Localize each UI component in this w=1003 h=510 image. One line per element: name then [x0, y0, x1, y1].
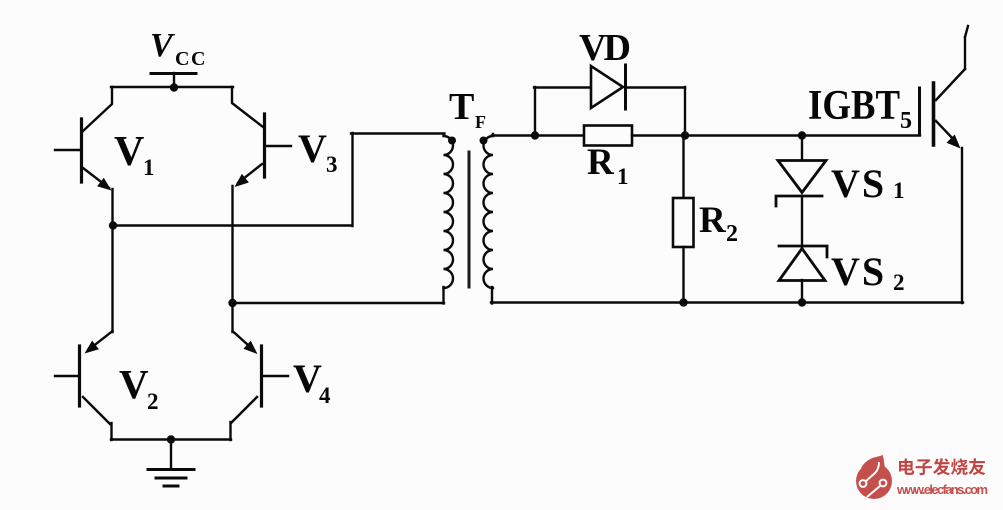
wire Vcc stem — [173, 73, 175, 87]
svg-text:1: 1 — [893, 178, 905, 203]
transformer core — [468, 152, 471, 287]
wire secondary bottom lead — [491, 287, 493, 304]
node Vcc junction dot — [170, 83, 178, 91]
node left mid junction — [109, 221, 117, 229]
node VS top junction — [798, 131, 806, 139]
label VS1 — [831, 161, 905, 206]
label Vcc — [150, 27, 207, 70]
node bottom bridge junction — [228, 299, 236, 307]
wire top rail — [111, 86, 233, 88]
wire bottom emitter rail — [111, 438, 231, 440]
svg-text:VD: VD — [579, 27, 631, 69]
label IGBT5 — [808, 83, 912, 134]
wire mid rail to transformer — [112, 224, 352, 226]
transistor V1 — [55, 87, 113, 226]
wire VD left vertical — [534, 87, 536, 136]
node ground junction dot — [167, 435, 175, 443]
svg-text:R: R — [587, 142, 615, 183]
svg-text:R: R — [699, 200, 727, 241]
svg-text:2: 2 — [147, 389, 159, 414]
watermark logo elecfans — [856, 455, 892, 500]
svg-text:VS: VS — [831, 161, 886, 206]
node R2 bottom junction — [679, 298, 687, 306]
wire VD branch top left — [534, 86, 591, 88]
label V3 — [298, 126, 338, 177]
label TF — [449, 86, 486, 132]
svg-text:VS: VS — [831, 249, 886, 294]
wire bridge to transformer primary bottom — [232, 302, 444, 304]
transistor V3 — [232, 87, 291, 332]
label V4 — [293, 356, 331, 408]
svg-text:V: V — [150, 27, 175, 64]
svg-text:V: V — [293, 356, 322, 401]
node VS bottom junction — [798, 298, 806, 306]
transistor V2 — [55, 331, 113, 440]
zener diode VS1 — [776, 136, 826, 247]
label VS2 — [831, 249, 905, 295]
wire VD right vertical — [684, 87, 686, 136]
transistor IGBT5 — [920, 26, 969, 303]
diode VD — [591, 65, 626, 109]
ground — [148, 439, 194, 486]
zener diode VS2 — [779, 246, 827, 303]
svg-text:T: T — [449, 86, 474, 128]
transistor V4 — [231, 331, 289, 440]
svg-text:4: 4 — [319, 383, 331, 408]
svg-text:F: F — [475, 112, 486, 132]
resistor R2 — [673, 136, 694, 303]
wire riser to primary top — [351, 133, 353, 226]
wire primary top — [351, 132, 445, 134]
svg-text:IGBT: IGBT — [808, 83, 900, 129]
label R1 — [587, 142, 629, 189]
svg-text:2: 2 — [893, 270, 905, 295]
svg-text:CC: CC — [175, 48, 207, 70]
node secondary polarity dot — [480, 137, 488, 145]
wire left vertical V1-V2 — [111, 225, 113, 332]
transformer T_F secondary winding — [484, 134, 494, 288]
node R2 top junction — [681, 131, 689, 139]
svg-text:2: 2 — [726, 221, 738, 247]
transformer T_F primary winding — [444, 134, 454, 288]
label V1 — [114, 129, 155, 180]
svg-text:3: 3 — [326, 152, 338, 177]
svg-text:V: V — [119, 361, 149, 407]
resistor R1 — [584, 126, 632, 146]
svg-text:V: V — [114, 129, 144, 175]
wire primary bottom lead — [442, 287, 444, 304]
svg-text:1: 1 — [143, 155, 155, 180]
label R2 — [699, 200, 738, 247]
svg-text:V: V — [298, 126, 327, 171]
node primary polarity dot — [448, 137, 456, 145]
label V2 — [119, 361, 159, 414]
svg-text:1: 1 — [617, 164, 629, 189]
wire secondary top to R1 — [492, 134, 585, 136]
wire bottom rail right — [491, 301, 963, 303]
wire gate rail — [632, 134, 920, 136]
svg-text:5: 5 — [900, 108, 912, 134]
Vcc terminal bar — [151, 72, 196, 75]
watermark text elecfans — [896, 458, 988, 497]
node VD left junction — [531, 131, 539, 139]
svg-text:www.elecfans.com: www.elecfans.com — [896, 482, 988, 497]
wire VD branch top right — [626, 86, 685, 88]
